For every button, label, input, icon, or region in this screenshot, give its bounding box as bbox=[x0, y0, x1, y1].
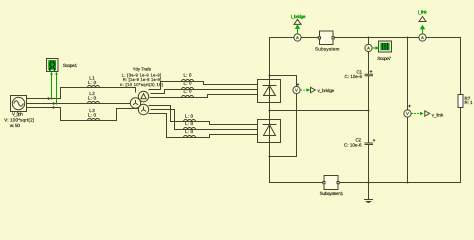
svg-text:L: 0: L: 0 bbox=[184, 80, 192, 85]
svg-text:A: A bbox=[296, 35, 299, 40]
svg-text:A: A bbox=[421, 35, 424, 40]
svg-text:L: 0: L: 0 bbox=[88, 80, 96, 85]
svg-text:L: 0: L: 0 bbox=[184, 72, 192, 77]
svg-text:v_bridge: v_bridge bbox=[318, 88, 335, 93]
svg-text:C: 10e-6: C: 10e-6 bbox=[344, 142, 362, 147]
svg-text:Subsystem1: Subsystem1 bbox=[320, 191, 344, 196]
svg-text:Scope1: Scope1 bbox=[63, 63, 78, 68]
svg-text:V: V bbox=[295, 88, 298, 93]
svg-text:C: 10e-6: C: 10e-6 bbox=[345, 74, 363, 79]
svg-text:Ydy Trafo: Ydy Trafo bbox=[133, 66, 152, 71]
svg-text:L: 0: L: 0 bbox=[184, 88, 192, 93]
svg-text:L: 0: L: 0 bbox=[88, 96, 96, 101]
svg-text:Subsystem: Subsystem bbox=[315, 47, 340, 52]
svg-text:V: V bbox=[406, 111, 409, 116]
svg-text:L: 0: L: 0 bbox=[185, 121, 193, 126]
svg-text:L: 0: L: 0 bbox=[185, 113, 193, 118]
svg-text:v_link: v_link bbox=[432, 112, 444, 117]
svg-text:R: 1: R: 1 bbox=[465, 100, 473, 105]
svg-text:I_link: I_link bbox=[418, 10, 428, 15]
svg-text:n: [10 10*sqrt(3) 10]: n: [10 10*sqrt(3) 10] bbox=[120, 82, 163, 87]
svg-text:V_3ph: V_3ph bbox=[12, 111, 23, 116]
svg-text:L: 0: L: 0 bbox=[88, 113, 96, 118]
svg-text:Scope7: Scope7 bbox=[377, 56, 391, 61]
svg-text:I_bridge: I_bridge bbox=[291, 14, 306, 19]
svg-text:L: 0: L: 0 bbox=[185, 129, 193, 134]
svg-text:w: 50: w: 50 bbox=[10, 123, 20, 128]
svg-text:A: A bbox=[367, 46, 370, 51]
